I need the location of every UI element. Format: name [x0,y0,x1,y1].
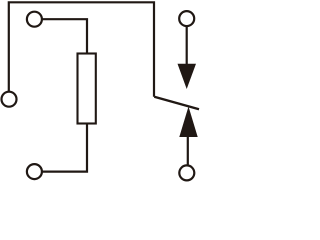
terminal T4 (top right) [179,11,194,26]
wire from T4 to upper contact [186,26,188,65]
lower contact arrow (pointing up) [179,107,197,138]
terminal T5 (bottom right) [179,165,194,180]
upper contact arrow (pointing down) [178,64,197,89]
terminal T2 (middle left) [2,92,17,107]
wire from resistor bottom to T3 [42,124,87,172]
wire from T1 to resistor top [42,19,87,53]
switch blade S1 [154,97,199,110]
terminal T1 (top left) [27,12,42,27]
wire from T2 up across top to switch pivot [9,2,154,96]
terminal T3 (bottom left) [27,164,42,179]
resistor R1 [78,54,96,124]
wire from lower contact to T5 [187,136,189,165]
